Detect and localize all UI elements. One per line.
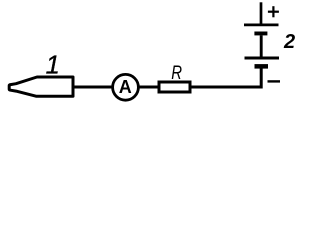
battery 2: cell 1 short thick plate (negative): [254, 32, 267, 36]
battery top terminal stub: [260, 2, 263, 24]
battery 2: cell 2 short thick plate (negative): [255, 64, 269, 69]
minus sign at battery bottom: [268, 80, 281, 82]
electrode probe 1 (pencil-shaped body): [9, 77, 73, 96]
svg-text:R: R: [171, 63, 182, 84]
wire ammeter to resistor: [138, 85, 160, 88]
battery 2: cell 2 long plate (positive): [245, 57, 280, 60]
svg-text:A: A: [119, 77, 132, 97]
ammeter U: circle: [113, 74, 139, 100]
battery 2: cell 1 long plate (positive): [244, 24, 279, 27]
svg-text:2: 2: [283, 31, 295, 53]
battery: connecting stub between cells: [260, 35, 263, 57]
plus sign at battery top: [268, 11, 279, 13]
wire probe to ammeter: [73, 85, 113, 88]
svg-text:1: 1: [46, 51, 60, 79]
resistor R: [159, 82, 190, 92]
wire resistor to battery (elbow up): [191, 68, 262, 87]
